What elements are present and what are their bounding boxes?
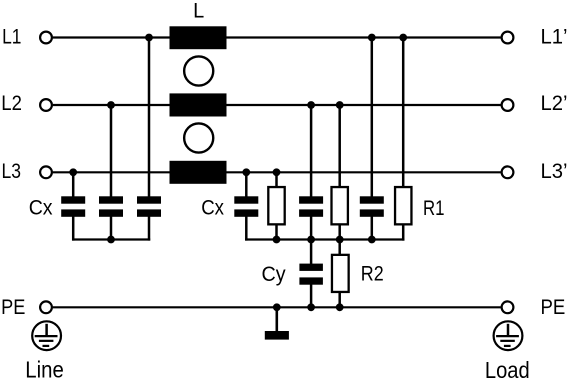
svg-text:L1: L1 xyxy=(2,25,21,48)
svg-text:L2: L2 xyxy=(1,92,22,115)
svg-text:R2: R2 xyxy=(361,263,384,286)
svg-text:PE: PE xyxy=(541,296,566,319)
svg-text:Cx: Cx xyxy=(201,196,224,219)
svg-text:L3’: L3’ xyxy=(541,160,568,183)
svg-text:Cx: Cx xyxy=(29,196,53,219)
svg-text:Line: Line xyxy=(25,357,64,383)
svg-text:L3: L3 xyxy=(2,160,22,183)
svg-text:L: L xyxy=(193,0,204,23)
svg-text:L1’: L1’ xyxy=(541,26,568,49)
svg-text:Cy: Cy xyxy=(262,263,287,286)
svg-text:Load: Load xyxy=(485,357,530,383)
svg-text:R1: R1 xyxy=(423,197,445,220)
svg-text:L2’: L2’ xyxy=(541,92,568,115)
svg-text:PE: PE xyxy=(1,296,25,319)
